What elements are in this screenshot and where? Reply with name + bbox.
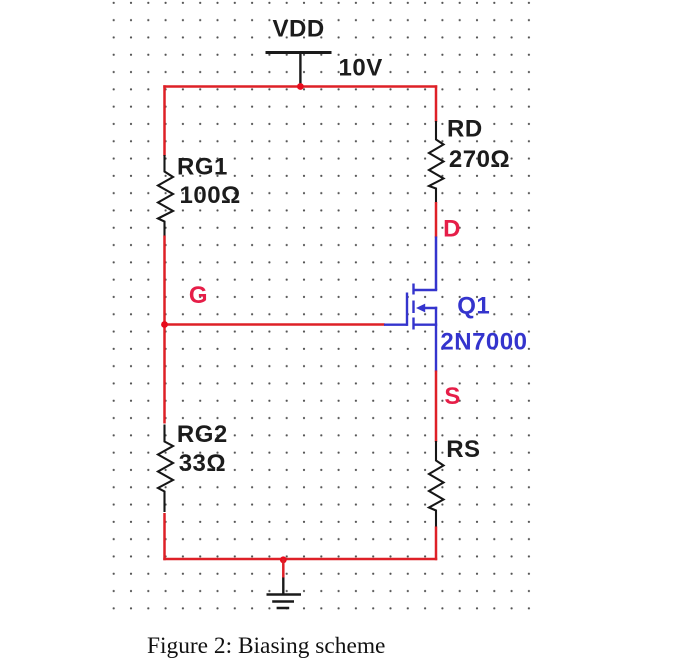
wire bottom horizontal <box>163 558 437 561</box>
svg-text:2N7000: 2N7000 <box>440 329 527 356</box>
drain connection <box>414 289 438 291</box>
wire source to RS (red) <box>435 371 438 443</box>
svg-text:100Ω: 100Ω <box>180 182 241 209</box>
body lead <box>421 307 437 309</box>
wire ground stem (red part) <box>282 559 285 578</box>
svg-text:D: D <box>443 216 460 243</box>
resistor RG1 <box>158 155 173 237</box>
channel segment top <box>412 284 414 295</box>
svg-text:Q1: Q1 <box>457 293 490 320</box>
svg-text:S: S <box>444 383 460 410</box>
svg-text:RG2: RG2 <box>177 421 228 448</box>
svg-text:Figure 2: Biasing scheme: Figure 2: Biasing scheme <box>147 633 385 659</box>
channel segment middle <box>412 301 414 314</box>
gate bar <box>406 293 408 326</box>
wire drain (blue) <box>435 237 438 291</box>
VDD power symbol <box>266 53 332 87</box>
node VDD junction <box>297 83 304 90</box>
source connection <box>414 324 438 326</box>
ground <box>267 578 302 609</box>
node ground junction <box>280 556 287 563</box>
svg-text:RG1: RG1 <box>177 154 228 181</box>
resistor RS <box>429 441 444 528</box>
wire RD to drain (red) <box>435 202 438 238</box>
wire left middle <box>163 236 166 424</box>
resistor RD <box>429 121 444 203</box>
svg-text:RD: RD <box>447 116 483 143</box>
channel segment bottom <box>412 318 414 330</box>
svg-text:10V: 10V <box>339 54 383 81</box>
wire right upper <box>435 85 438 122</box>
svg-text:RS: RS <box>446 436 480 463</box>
wire top horizontal <box>163 85 437 88</box>
wire RS to bottom (red) <box>435 527 438 561</box>
svg-text:VDD: VDD <box>273 16 325 43</box>
wire left lower <box>163 513 166 560</box>
svg-text:G: G <box>189 282 208 309</box>
body arrow head <box>416 304 425 313</box>
resistor RG2 <box>158 425 173 513</box>
wire left upper <box>163 85 166 156</box>
node G junction <box>161 321 168 328</box>
transistor Q1 (2N7000 NMOS) <box>384 284 437 372</box>
gate lead <box>384 324 407 326</box>
source vertical <box>435 307 437 372</box>
wire gate horizontal (red) <box>165 323 385 326</box>
svg-text:33Ω: 33Ω <box>179 450 226 477</box>
svg-text:270Ω: 270Ω <box>449 146 510 173</box>
